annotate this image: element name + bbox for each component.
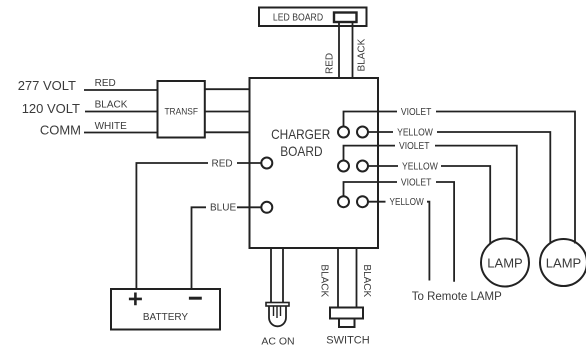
svg-text:RED: RED [325,53,336,74]
switch body [330,308,363,319]
wire RED to battery plus [237,162,261,164]
charger board U1 [250,78,379,248]
wire transformer out 3 [205,131,250,133]
wire 277 VOLT RED input [84,89,158,91]
svg-text:LAMP: LAMP [546,256,581,271]
wire transformer out 2 [205,111,250,113]
transformer TRANSF [158,81,205,138]
wire VIOLET 2 to left lamp [344,146,396,161]
terminal BLUE on charger board [261,202,272,213]
wire COMM WHITE input [84,132,158,134]
connector J1 on LED board [334,13,357,23]
svg-text:VIOLET: VIOLET [401,178,432,189]
svg-text:TRANSF: TRANSF [164,107,198,118]
svg-text:BOARD: BOARD [280,143,322,159]
terminal pair 2 left circle [338,161,349,172]
svg-text:CHARGER: CHARGER [271,126,330,142]
wire AC plug left [270,248,272,303]
battery box [111,289,220,330]
wire BLACK LED board to charger board [352,22,354,78]
svg-text:120 VOLT: 120 VOLT [22,101,80,116]
svg-text:277 VOLT: 277 VOLT [18,78,76,93]
battery minus symbol [189,297,202,300]
terminal pair 3 left circle [338,196,349,207]
terminal RED on charger board [261,158,272,169]
svg-text:To Remote LAMP: To Remote LAMP [412,289,502,303]
battery plus symbol [129,293,142,306]
wire AC plug right [282,248,284,303]
wire VIOLET 1 to right lamp [344,112,398,127]
svg-text:BATTERY: BATTERY [143,312,189,323]
svg-text:AC ON: AC ON [261,336,294,348]
svg-text:YELLOW: YELLOW [402,162,438,173]
svg-text:VIOLET: VIOLET [399,141,430,152]
wire transformer out 1 [205,88,250,90]
svg-text:BLACK: BLACK [361,264,372,297]
terminal pair 1 left circle [338,127,349,138]
terminal pair 2 right circle [357,161,368,172]
wire VIOLET 3 to remote lamp [344,182,398,196]
switch actuator [339,319,355,328]
svg-text:YELLOW: YELLOW [397,128,433,139]
LED board box [259,8,367,27]
svg-text:VIOLET: VIOLET [401,107,432,118]
svg-text:BLACK: BLACK [95,100,128,111]
svg-text:BLACK: BLACK [319,264,330,297]
svg-text:LAMP: LAMP [487,256,522,271]
AC plug filament pins [274,307,281,319]
terminal pair 1 right circle [357,127,368,138]
wire 120 VOLT BLACK input [85,111,158,113]
terminal pair 3 right circle [357,196,368,207]
svg-text:BLACK: BLACK [357,38,368,71]
wire switch right BLACK [356,248,358,308]
svg-text:LED BOARD: LED BOARD [273,13,323,24]
lamp 2 circle [540,239,586,286]
AC plug bulb [269,306,286,326]
svg-text:WHITE: WHITE [95,121,128,132]
lamp 1 circle [481,239,529,287]
wire YELLOW 1 to right lamp [368,131,393,133]
wire RED LED board to charger board [338,22,340,78]
wire switch left BLACK [337,248,339,308]
AC plug flange [266,303,289,307]
svg-text:BLUE: BLUE [210,203,236,214]
wire YELLOW 2 to left lamp [368,165,398,167]
svg-text:COMM: COMM [40,123,81,138]
wire BLUE to battery minus [237,206,261,208]
wire YELLOW 3 to remote lamp [368,201,386,203]
svg-text:SWITCH: SWITCH [326,335,369,347]
svg-text:YELLOW: YELLOW [390,197,425,208]
svg-text:RED: RED [212,159,233,170]
svg-text:RED: RED [95,78,116,89]
